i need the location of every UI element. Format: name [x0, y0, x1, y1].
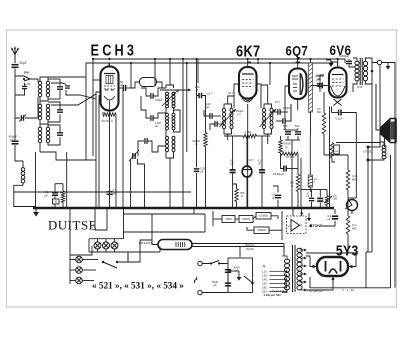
switch band [102, 252, 128, 268]
tube ECH3 grid dashes [105, 89, 114, 91]
wire out terminal [371, 61, 388, 84]
svg-text:150µF: 150µF [283, 106, 291, 110]
capacitor tune1 [57, 87, 63, 89]
wire antenna down [15, 69, 24, 77]
capacitor 0.1 left [107, 192, 113, 194]
svg-text:ECH3: ECH3 [91, 42, 138, 59]
resistor 05M horizontal [281, 152, 298, 155]
transformer OUT core [360, 58, 362, 85]
wire barretter [152, 238, 284, 252]
wire vert187 [186, 63, 188, 152]
wire ech3 sides [93, 63, 123, 160]
wire vert204 [197, 59, 206, 207]
capacitor 01 b [275, 195, 281, 197]
svg-text:0.1µF: 0.1µF [336, 117, 343, 121]
lamp D3 [111, 242, 118, 249]
wire if1 mid [141, 96, 180, 136]
svg-text:4.2Ω per 531: 4.2Ω per 531 [264, 293, 282, 297]
coil IF1c [166, 113, 169, 130]
wire choke [14, 161, 36, 207]
transformer PT secondary [297, 248, 302, 290]
trimmer padder [133, 153, 135, 159]
capacitor osc pad [145, 138, 147, 144]
capacitor coupling b [259, 170, 265, 173]
resistor 01M [346, 216, 350, 234]
wire right edge2 [390, 155, 392, 288]
wire pu [293, 209, 303, 216]
wire mains [202, 292, 228, 294]
wire cap01b [273, 186, 278, 208]
chassis bus [33, 207, 334, 210]
svg-text:10000µµF: 10000µµF [273, 173, 285, 176]
wire diode [246, 136, 248, 207]
coil L1 secondary [46, 81, 49, 97]
tube 6K7 filament [242, 98, 253, 102]
wire col lamp feed [70, 208, 194, 255]
tube ECH3 envelope [101, 67, 119, 111]
wire if1 top [141, 59, 174, 96]
wire right edge [388, 63, 395, 288]
terminal mains N [198, 290, 202, 294]
svg-text:µF: µF [272, 195, 275, 199]
wire 6v6 cathode pair [330, 107, 332, 208]
label AC [193, 277, 199, 283]
wire left col [15, 118, 23, 161]
wire AVC line [14, 192, 191, 238]
tube 5Y3 anodes [326, 261, 341, 272]
svg-text:DW: DW [24, 71, 29, 75]
svg-text:F: F [301, 224, 303, 228]
wire padder down [131, 153, 145, 208]
wire cluster55 [55, 152, 67, 207]
capacitor mix grid [65, 86, 70, 88]
tuning arrows DET [260, 109, 277, 128]
svg-text:µF: µF [155, 124, 159, 128]
capacitor 10000uuF [284, 166, 286, 172]
capacitor if1 p [151, 93, 153, 99]
capacitor tone branch b [317, 198, 323, 201]
resistor 300 cathode [235, 189, 239, 202]
wire top rail 2 [86, 63, 332, 160]
tuning arrows IF1 [162, 90, 178, 106]
svg-text:±2.7: ±2.7 [228, 91, 234, 95]
box resistor 5000 [239, 216, 253, 223]
wire ant to coil [15, 76, 38, 118]
wire top rail B+ upper [93, 59, 345, 156]
svg-text:µF: µF [206, 105, 210, 109]
antenna [11, 46, 19, 63]
svg-text:1 MΩ: 1 MΩ [245, 130, 252, 134]
coil L2 primary [38, 104, 41, 120]
svg-text:±2.7: ±2.7 [249, 159, 254, 162]
svg-text:35 MΩ: 35 MΩ [246, 247, 254, 251]
ground arrow 6v6 top [330, 60, 332, 63]
svg-text:T 62 per 521: T 62 per 521 [307, 289, 323, 293]
capacitor 6q7 grid top [296, 61, 301, 63]
tube 5Y3 filament [329, 269, 337, 274]
box resistor 15000 [254, 227, 269, 234]
resistor 100 left [61, 191, 64, 203]
tube ECH3 electrodes [104, 74, 115, 111]
wire L2 [40, 101, 60, 124]
wire 6q7 pins [285, 59, 298, 121]
capacitor det p [278, 109, 280, 115]
resistor tone [325, 196, 328, 206]
wire top rail 3 segment [109, 59, 270, 86]
tube 5Y3 envelope [317, 257, 348, 276]
svg-text:RB 14/9/T: RB 14/9/T [139, 241, 152, 245]
page border frame [7, 30, 397, 307]
wire lamps col [70, 246, 98, 284]
band switch box [140, 78, 157, 87]
capacitor if2 s [215, 121, 217, 127]
capacitor coupling a [230, 170, 236, 173]
coil field 1700 [382, 145, 386, 159]
svg-text:0.5 MΩ: 0.5 MΩ [286, 155, 295, 159]
wire y155 link [324, 154, 348, 156]
capacitor 50000 [317, 84, 323, 86]
transformer OUT primary [355, 61, 359, 81]
wire field risers [368, 84, 376, 252]
svg-text:« 521 », « 531 », « 534 »: « 521 », « 531 », « 534 » [92, 281, 184, 291]
wire res boxes [213, 211, 282, 240]
switch DW-GW [24, 76, 34, 81]
resistor 1M horizontal [243, 134, 257, 138]
capacitor ant padder [22, 86, 27, 88]
wire if2 [204, 96, 234, 140]
coil IF2b [230, 108, 233, 129]
wire 5y3 box [306, 252, 391, 290]
wire AVC arrow [160, 89, 192, 92]
resistor 100 af [296, 175, 300, 192]
wire af det [281, 136, 302, 207]
box resistor 10000 [256, 213, 271, 220]
wire box top feeds [240, 247, 284, 258]
resistor 6q7 load [322, 113, 326, 134]
capacitor tone branch a [309, 198, 314, 200]
lamp D2 [103, 242, 110, 249]
capacitor 025uF [194, 169, 199, 172]
wire 025 [347, 155, 349, 198]
ground arrow pu [308, 213, 310, 218]
resistor 50000 det [279, 140, 283, 153]
resistor 600 box [308, 175, 312, 187]
barretter tube [158, 240, 192, 250]
svg-text:Ω: Ω [196, 142, 198, 146]
terminal speaker+ [377, 60, 381, 64]
capacitor if2 p [210, 113, 212, 119]
svg-text:±2.7: ±2.7 [275, 100, 281, 104]
capacitor 5000a [225, 270, 231, 273]
capacitor 6v6 grid [320, 83, 322, 89]
box resistor 7000 [222, 216, 235, 223]
svg-text:6V6: 6V6 [329, 42, 351, 58]
wire det [261, 85, 291, 144]
svg-text:6Q7: 6Q7 [286, 43, 309, 58]
coil L1 primary [38, 81, 41, 97]
svg-text:6/10: 6/10 [357, 85, 363, 89]
svg-text:F - 1 - 62: F - 1 - 62 [343, 288, 355, 292]
svg-text:µF: µF [45, 193, 49, 197]
capacitor tone [332, 216, 338, 219]
wire psu caps [228, 267, 239, 293]
svg-text:10000Ω: 10000Ω [259, 215, 268, 218]
wire coupling b [261, 136, 263, 207]
svg-text:45Ω/7Ω: 45Ω/7Ω [245, 243, 254, 247]
wire 6q7 area [285, 92, 324, 208]
transformer OUT secondary [363, 61, 367, 81]
wire pot [348, 198, 356, 253]
wire cap50000 [320, 75, 324, 92]
speaker [381, 119, 396, 148]
svg-text:100µF: 100µF [155, 98, 163, 102]
wire L3 [40, 124, 60, 152]
svg-text:MΩ: MΩ [333, 198, 337, 201]
capacitor 500a [285, 132, 291, 134]
lamp E3 [76, 277, 83, 284]
coil IF1a [166, 92, 169, 108]
tube 6Q7 electrodes [292, 73, 303, 95]
svg-text:µF: µF [214, 283, 218, 287]
svg-text:7000: 7000 [225, 217, 232, 221]
coil DET a [263, 108, 266, 129]
wire shaded [310, 59, 312, 135]
tuning arrows IF2 [220, 109, 237, 128]
wire left riser [36, 152, 97, 207]
junction dots rails [108, 58, 110, 60]
coil L3 secondary [46, 127, 49, 143]
wire vert183 [182, 59, 184, 207]
transformer PT primary [284, 259, 289, 290]
pickup box dashed [287, 216, 307, 234]
svg-text:Ω per 531: Ω per 531 [272, 289, 285, 293]
tube 6Q7 envelope [289, 69, 307, 100]
lamp D1 [94, 242, 101, 249]
capacitor grid ECH3 [123, 85, 125, 91]
capacitor det s [283, 118, 285, 124]
wire x380 drop [379, 65, 381, 147]
small tube diode [242, 166, 252, 177]
selector arm [244, 276, 254, 284]
capacitor 0.5uF mid-left [52, 193, 58, 196]
wire 600 box [309, 135, 311, 192]
svg-text:Ω: Ω [286, 145, 288, 149]
svg-text:DUITSE: DUITSE [48, 219, 97, 233]
svg-text:µF: µF [328, 217, 332, 221]
coil IF1b [172, 92, 175, 108]
wire grid cap [126, 87, 131, 89]
tube 6V6 electrodes [332, 75, 344, 87]
transformer PT core [293, 245, 296, 292]
wire 6k7 pins [234, 59, 261, 208]
svg-text:6K7: 6K7 [236, 43, 261, 60]
tube 6K7 envelope [239, 67, 257, 99]
capacitor antenna 50pF [12, 65, 19, 68]
capacitor tune3 [57, 133, 63, 135]
wire switch down [128, 240, 152, 262]
wire pt taps [282, 249, 306, 293]
svg-text:TONE: TONE [313, 224, 324, 228]
capacitor 100uF chain [199, 93, 201, 98]
svg-text:5Y3: 5Y3 [336, 242, 359, 258]
wire out transformer [353, 58, 372, 92]
capacitor 6v6 top [346, 61, 352, 63]
resistor 100 6v6 [330, 143, 333, 159]
capacitor if1 s [151, 115, 153, 121]
coil IF1d [172, 113, 175, 130]
coil IF2a [223, 108, 226, 129]
coil L2 secondary [46, 104, 49, 120]
wire field [367, 142, 385, 162]
capacitor 500b [295, 132, 301, 134]
terminal mains L [198, 261, 202, 265]
capacitor 6k7 grid top [248, 61, 251, 63]
svg-text:MΩ: MΩ [317, 110, 321, 114]
svg-text:A: A [288, 224, 290, 228]
capacitor tune2 [57, 110, 63, 112]
tube 6K7 electrodes [242, 74, 254, 87]
wire L1 [40, 77, 86, 101]
svg-text:450µF: 450µF [236, 109, 244, 113]
svg-text:W1001 A: W1001 A [102, 119, 113, 123]
svg-text:µF: µF [196, 88, 200, 92]
ground arrow bus [35, 208, 37, 212]
wire osc bottom [138, 141, 174, 208]
svg-text:µF: µF [258, 162, 261, 166]
wire 6v6 grid [311, 59, 338, 86]
svg-text:7.7: 7.7 [237, 112, 241, 116]
pickup triangle [291, 220, 300, 232]
coil choke L4 [21, 168, 25, 183]
capacitor 01 6v6 [339, 110, 341, 116]
wire 100 6v6 [332, 143, 380, 163]
svg-text:MΩ: MΩ [352, 177, 356, 181]
tube 6V6 bottom [331, 86, 346, 106]
svg-text:5000Ω: 5000Ω [242, 217, 250, 221]
ground arrow psu [238, 271, 240, 277]
wire tank [131, 63, 162, 88]
wire tone cluster [301, 189, 327, 207]
capacitor 450uF left [12, 141, 19, 144]
svg-text:±2.7: ±2.7 [207, 92, 213, 96]
potentiometer volume [347, 200, 358, 211]
svg-text:µF: µF [200, 170, 204, 174]
capacitor 5000b [225, 283, 231, 286]
wire res300 [233, 184, 237, 207]
wire 6v6 coupling [332, 113, 357, 199]
svg-text:MΩ: MΩ [352, 226, 356, 230]
resistor shaded tall [309, 63, 313, 113]
lamp E2 [76, 267, 83, 274]
svg-text:µF: µF [120, 83, 124, 87]
selector box [228, 258, 253, 293]
resistor W1001 under ECH3 [103, 113, 116, 117]
switch mains [202, 261, 228, 265]
wire lamp box [95, 207, 205, 239]
wire coupling a [232, 136, 234, 207]
wire trim [25, 97, 38, 118]
coil DET b [270, 108, 273, 129]
tube 6V6 envelope [329, 68, 347, 98]
trimmer cap ant [21, 115, 23, 121]
svg-text:50µF: 50µF [20, 61, 27, 65]
resistor 50000 mid [204, 133, 208, 147]
wire lamp row [89, 239, 160, 252]
junction dots 5Y3 [312, 265, 315, 268]
wire ech3 vert99 [98, 95, 100, 207]
wire mix diagonals [51, 83, 96, 105]
svg-text:Ω: Ω [241, 194, 243, 198]
wire tone [322, 209, 335, 226]
svg-text:15000Ω: 15000Ω [257, 229, 266, 232]
svg-text:µF: µF [317, 77, 321, 81]
wire osc riser [96, 88, 123, 208]
resistor 025M [346, 170, 350, 190]
wire 6v6 top [326, 59, 355, 67]
ground arrow out [387, 64, 389, 66]
wire speaker [376, 84, 383, 147]
lamp E1 [76, 256, 83, 263]
coil L3 primary [38, 127, 41, 143]
box resistor 50 [53, 199, 60, 204]
coil osc [166, 136, 169, 152]
